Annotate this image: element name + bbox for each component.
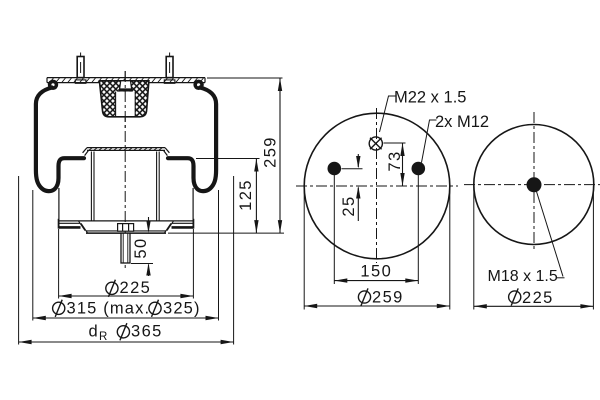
bottom bolt 50mm (121, 233, 130, 263)
dimension 259 vertical (279, 78, 281, 233)
svg-text:259: 259 (262, 136, 280, 168)
svg-text:50: 50 (132, 237, 150, 258)
svg-text:259: 259 (372, 289, 404, 307)
centerline tick above stud left (80, 53, 82, 58)
bolt right M12 (top view) (412, 162, 426, 176)
top plate crimp ticks (50, 78, 204, 82)
svg-text:365: 365 (131, 323, 163, 341)
centerline horizontal right (464, 184, 600, 186)
piston wall left (58, 188, 60, 221)
centerline horizontal middle (296, 185, 458, 187)
svg-text:25: 25 (340, 195, 358, 216)
svg-text:325): 325) (163, 299, 201, 317)
centerline tick above stud right (169, 53, 171, 58)
extension lines bottom dims left view (19, 78, 284, 345)
centerline left view (over bumper) (124, 71, 126, 130)
bumper (rubber, crosshatched) (99, 81, 148, 117)
svg-text:R: R (99, 331, 107, 343)
leader M18 (537, 192, 565, 278)
bead plate crimp ticks (89, 148, 162, 150)
M18 center bolt (527, 177, 542, 192)
svg-text:315 (max.: 315 (max. (67, 299, 151, 317)
dimension d259 (304, 305, 450, 307)
svg-text:d: d (89, 323, 98, 341)
bellows outer wall left (36, 88, 84, 192)
dimension 50 (131, 217, 153, 276)
dimension d315 (33, 317, 219, 319)
piston inner tube left (90, 152, 92, 221)
piston bottom plate (59, 219, 194, 233)
svg-text:M22 x 1.5: M22 x 1.5 (394, 89, 466, 107)
extension lines right view (474, 186, 594, 310)
bellows outer wall right (168, 88, 216, 192)
bellows rolled edge right (193, 80, 203, 90)
piston inner tube right (156, 152, 158, 221)
stud left M12 (75, 57, 86, 84)
label d315 (max. d325) (53, 300, 65, 317)
M22 air fitting symbol (369, 137, 382, 150)
bottom view circle (474, 125, 594, 245)
piston wall right (192, 188, 194, 221)
bottom nut (118, 224, 134, 232)
dimension d365 (19, 341, 234, 343)
dimension 73 (402, 143, 404, 186)
svg-text:125: 125 (237, 179, 255, 211)
svg-text:M18 x 1.5: M18 x 1.5 (488, 268, 558, 285)
dimension 150 (334, 280, 418, 282)
centerline vertical middle (376, 108, 378, 263)
leader M22 (380, 96, 396, 132)
centerline left view (124, 71, 126, 270)
label d225 right view (509, 288, 521, 305)
leader 2x M12 (422, 120, 437, 163)
bumper bolt underline (118, 89, 133, 91)
dimension 25 (357, 154, 359, 221)
bellows rolled edge left (48, 80, 58, 90)
label d259 (358, 288, 370, 305)
dimension d225 (59, 295, 194, 297)
top plate (47, 78, 205, 83)
svg-text:225: 225 (522, 289, 554, 307)
svg-text:73: 73 (386, 150, 404, 171)
svg-text:150: 150 (360, 263, 392, 281)
svg-text:2x M12: 2x M12 (435, 113, 489, 131)
bumper center bolt (120, 81, 132, 89)
stud right M12 (164, 57, 175, 84)
svg-text:225: 225 (120, 279, 152, 297)
centerline vertical right (533, 112, 535, 252)
piston bead plate (83, 148, 170, 156)
dimension d225 right view (474, 305, 594, 307)
bolt left M12 (top view) (328, 162, 342, 176)
extension lines middle view (304, 143, 450, 310)
dimension 125 vertical (255, 159, 257, 234)
bumper cavity (116, 92, 136, 116)
top view circle (304, 113, 450, 259)
label d225 left view (106, 280, 118, 297)
